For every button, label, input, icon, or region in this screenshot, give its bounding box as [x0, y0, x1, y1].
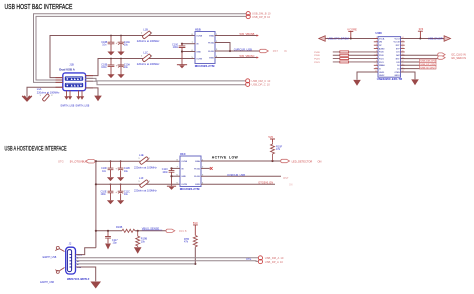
svg-text:2: 2: [149, 181, 151, 183]
connector left pin stubs: [56, 78, 63, 88]
svg-text:220ohm at 100MHz: 220ohm at 100MHz: [37, 90, 60, 94]
svg-text:1: 1: [141, 55, 143, 57]
ground arrow below C103: [107, 74, 114, 78]
capacitor C102 row A polarized: [116, 36, 124, 52]
svg-text:ENA: ENA: [195, 160, 200, 163]
wire J2 DM long: [76, 257, 259, 259]
svg-text:5V0: 5V0: [268, 135, 273, 139]
svg-text:MIC2026-2YM: MIC2026-2YM: [180, 187, 200, 191]
bus entry arrow left: [319, 36, 325, 42]
svg-text:22: 22: [402, 44, 404, 46]
tag I2C_SDA3: [438, 56, 445, 59]
wire U400 left gnd: [357, 72, 378, 80]
wire I2C_CLK3: [401, 54, 438, 56]
svg-text:PU21: PU21: [314, 59, 320, 61]
svg-text:PD21: PD21: [379, 62, 384, 64]
ground earth chassis left: [23, 96, 32, 101]
svg-text:GND: GND: [196, 52, 201, 54]
svg-text:L1B: L1B: [143, 27, 148, 31]
svg-text:20: 20: [402, 51, 404, 53]
svg-text:USB_DM,DP_A: USB_DM,DP_A: [428, 38, 446, 41]
wire ENA to 5V0_VBUSB: [215, 35, 257, 37]
svg-text:2: 2: [149, 158, 151, 160]
svg-text:RBIAS: RBIAS: [379, 64, 385, 67]
svg-text:D1: D1: [397, 69, 399, 71]
wire R7B to ID line: [194, 248, 196, 264]
off-page connector USB_DP_C: [246, 82, 250, 86]
svg-text:1: 1: [141, 32, 143, 34]
SECTION: top block: [5, 3, 287, 107]
connector shield stubs down: [67, 91, 83, 96]
resistor R402: [340, 54, 349, 56]
capacitor C117: [105, 231, 111, 244]
svg-text:IN: IN: [284, 49, 287, 53]
svg-text:5V0_VBUSB: 5V0_VBUSB: [240, 32, 255, 36]
svg-text:100n: 100n: [173, 46, 179, 49]
resistor R401: [340, 51, 349, 53]
svg-text:USB_DP_C 10: USB_DP_C 10: [252, 83, 271, 87]
off-page connector USB_DM_C: [246, 79, 250, 83]
svg-text:OTG: OTG: [58, 159, 64, 163]
ground bar below C100: [177, 64, 186, 66]
junction dot IN (U1C): [170, 167, 172, 169]
svg-text:1: 1: [138, 158, 140, 160]
svg-text:PD20: PD20: [379, 55, 384, 57]
wire row C VBUS: [96, 160, 180, 162]
wire FLGB to RST tag: [215, 50, 261, 52]
SECTION: top right IC: [110, 27, 467, 185]
net label box USB_ID: [420, 66, 437, 69]
ground arrow below C105: [107, 177, 114, 181]
svg-text:10k: 10k: [141, 241, 146, 244]
svg-text:23: 23: [402, 41, 404, 43]
svg-text:GND1: GND1: [379, 72, 384, 74]
tag VBUS_SENSE: [166, 229, 175, 232]
svg-text:21: 21: [402, 47, 404, 49]
wire USB_DP_CPU: [401, 64, 437, 66]
svg-text:VCORE: VCORE: [347, 27, 357, 31]
svg-text:220ohm at 100MHz: 220ohm at 100MHz: [134, 189, 157, 193]
svg-text:EARTH_USB: EARTH_USB: [61, 104, 75, 107]
ground arrow below C109: [117, 200, 124, 204]
svg-text:10u: 10u: [124, 66, 129, 69]
svg-text:FLGA: FLGA: [208, 42, 214, 45]
svg-text:100n: 100n: [101, 193, 107, 196]
svg-text:OTG5V0_EN: OTG5V0_EN: [258, 182, 273, 185]
ground arrow below C108: [107, 200, 114, 204]
svg-text:4: 4: [376, 47, 377, 49]
junction dot FLGA/FLGB: [229, 50, 231, 52]
ground arrow below C104: [117, 74, 124, 78]
ground earth EARTH_USB right pair: [76, 96, 84, 100]
svg-text:L1C: L1C: [143, 50, 148, 54]
net label box USB_DP_CPU: [420, 62, 437, 65]
svg-text:220ohm at 100MHz: 220ohm at 100MHz: [137, 39, 160, 43]
svg-text:J2: J2: [69, 242, 72, 246]
ground triangle below J2: [90, 282, 101, 289]
junction dot R19B: [137, 230, 139, 232]
vertical VBUS wire to connector: [95, 161, 97, 248]
svg-text:VCC3: VCC3: [395, 38, 400, 40]
svg-text:OUTA: OUTA: [181, 160, 187, 163]
svg-text:DM: DM: [379, 42, 382, 44]
svg-text:Dual USB A: Dual USB A: [59, 68, 74, 72]
mounting tab top: [59, 249, 64, 252]
resistor R10F pullup: [271, 142, 275, 161]
junction dot row D left: [95, 183, 97, 185]
svg-text:ON: ON: [289, 185, 293, 187]
wire J2 VBUS pin up: [76, 248, 96, 255]
svg-text:LED_DETECTOR: LED_DETECTOR: [292, 159, 313, 163]
svg-text:10p: 10p: [113, 242, 118, 245]
ground below left of U400: [353, 80, 361, 86]
svg-text:ON: ON: [318, 159, 322, 163]
svg-text:1: 1: [138, 181, 140, 183]
wire USB_DP_C long: [86, 81, 246, 85]
off-page connector USB_DP_B: [246, 15, 250, 19]
U400 left pin stubs: [374, 39, 378, 73]
wire ENB to 5V0_VBUSC: [215, 57, 257, 59]
svg-text:PU20: PU20: [379, 52, 384, 54]
svg-text:EARTH_USB: EARTH_USB: [43, 256, 57, 259]
wire IN pin to cap: [182, 43, 195, 45]
pin numbers U1C: [177, 159, 205, 184]
svg-text:VCCA: VCCA: [379, 37, 385, 40]
wire ENB: [201, 183, 275, 185]
junction dot VBUS row: [95, 230, 97, 232]
ground triangle right of connector: [94, 96, 102, 102]
svg-text:USB_DP_A 10: USB_DP_A 10: [265, 260, 284, 264]
junction dot C117: [107, 230, 109, 232]
arrowhead 5V0_VBUSC: [257, 56, 259, 58]
svg-text:U400: U400: [376, 31, 383, 35]
svg-text:J1B: J1B: [69, 62, 74, 66]
svg-text:OUTB: OUTB: [196, 59, 202, 61]
wire J2 GND to ground: [76, 267, 96, 281]
svg-text:PD20: PD20: [314, 55, 320, 57]
no-connect X FLGA: [210, 167, 213, 170]
svg-text:5V_OTGVBUS: 5V_OTGVBUS: [70, 159, 88, 163]
svg-text:OVRCUR_USB: OVRCUR_USB: [234, 48, 252, 52]
svg-text:10n: 10n: [102, 44, 107, 47]
ferrite bead L1E: [138, 157, 150, 165]
svg-text:FLGA: FLGA: [194, 167, 200, 170]
svg-text:OUTA: OUTA: [196, 35, 202, 38]
wire net USB_DM_B (connector pin3 to top off-page): [34, 14, 247, 83]
junction dot ID: [194, 263, 196, 265]
wire net VBUS row A (connector pin1 up to switch OUTA): [50, 36, 195, 78]
U400 right pin stubs: [401, 39, 405, 73]
svg-text:2: 2: [51, 95, 53, 97]
svg-text:GND3: GND3: [394, 75, 399, 77]
svg-text:2: 2: [151, 32, 153, 34]
svg-text:L1E: L1E: [139, 153, 144, 157]
wire shield right to ground: [86, 88, 98, 96]
svg-text:10n: 10n: [102, 170, 107, 173]
svg-text:10u: 10u: [124, 44, 129, 47]
svg-text:WM17115-480TLF: WM17115-480TLF: [67, 277, 90, 281]
svg-text:2: 2: [376, 41, 377, 43]
svg-text:R10B: R10B: [116, 226, 123, 229]
wire net USB_DP_B (connector pin2 to off-page): [36, 16, 246, 80]
wire GND pin (U1C): [172, 175, 181, 177]
svg-text:AGND: AGND: [379, 47, 385, 50]
wire FLGA stub: [201, 167, 210, 169]
connector right pin stubs: [86, 76, 93, 88]
wire VBUS_SENSE row: [96, 230, 122, 232]
svg-text:9: 9: [376, 64, 377, 66]
wire J2 DP long: [76, 260, 259, 263]
svg-text:EARTH_USB: EARTH_USB: [76, 104, 90, 107]
junction dot GND (U1C): [170, 175, 172, 177]
svg-text:GND2: GND2: [379, 75, 384, 77]
mounting tab bottom: [59, 268, 64, 271]
svg-text:3: 3: [376, 44, 377, 46]
off-page connector USB_DM_A: [258, 256, 262, 260]
svg-text:RST: RST: [273, 49, 279, 53]
svg-text:10u: 10u: [124, 170, 129, 173]
U400 left pin names: [379, 37, 385, 77]
svg-text:+: +: [116, 64, 118, 68]
svg-text:3V3: 3V3: [419, 27, 424, 31]
svg-text:FLGB: FLGB: [208, 51, 214, 53]
svg-text:2: 2: [151, 55, 153, 57]
ground triangle below R19B: [134, 247, 142, 254]
svg-text:1: 1: [376, 37, 377, 39]
wire FLGA jog: [215, 43, 230, 52]
off-page connector USB_DM_B: [246, 12, 250, 16]
svg-text:PU20: PU20: [314, 52, 320, 54]
capacitor C104 row B polarized: [116, 59, 124, 75]
wire row D: [96, 183, 180, 185]
svg-text:USB_DM_C 10: USB_DM_C 10: [252, 79, 271, 83]
resistor R7B: [193, 235, 197, 247]
capacitor C109 row D polarized: [115, 184, 123, 200]
svg-text:OTG: OTG: [246, 258, 251, 261]
wire FLGB: [201, 175, 281, 177]
svg-text:USB_DP_B 10: USB_DP_B 10: [252, 15, 271, 19]
resistor R404: [340, 61, 349, 63]
svg-text:10: 10: [375, 67, 377, 69]
svg-text:100n: 100n: [101, 66, 107, 69]
ferrite bead L1A: [40, 94, 54, 102]
wire IN pin to cap (U1C): [172, 167, 181, 169]
svg-text:D0: D0: [397, 65, 399, 67]
capacitor C105 row C: [108, 161, 114, 177]
junction dots cap rows: [110, 35, 122, 186]
ground arrow below C102: [117, 52, 124, 56]
left pin numbers: [375, 37, 377, 72]
wire U400 right gnd: [401, 72, 416, 79]
ground below right of U400: [411, 79, 419, 85]
svg-text:100n: 100n: [162, 171, 168, 174]
svg-text:+: +: [115, 190, 117, 194]
wire ENA to LED_DETECTOR: [201, 160, 281, 162]
svg-text:220ohm at 100MHz: 220ohm at 100MHz: [137, 62, 160, 66]
ground arrow below C101: [107, 52, 114, 56]
wire U400 to right bus arrow: [401, 38, 446, 40]
wire row B (connector right pin1 up to OUTB): [86, 59, 195, 76]
svg-text:FLGB: FLGB: [194, 176, 200, 178]
svg-text:USB_DM_A 10: USB_DM_A 10: [265, 256, 284, 260]
capacitor C106 row C polarized: [115, 161, 123, 177]
svg-text:U1C: U1C: [180, 152, 186, 156]
ferrite bead L1F: [138, 180, 150, 188]
junction dot IN: [181, 43, 183, 45]
svg-text:ENA: ENA: [209, 35, 214, 38]
ground arrow below C117: [105, 244, 111, 250]
connector J1B Dual USB A: [63, 73, 86, 91]
svg-text:USB HOST B&C INTERFACE: USB HOST B&C INTERFACE: [5, 3, 73, 11]
SECTION: bottom block: [5, 135, 322, 289]
svg-text:5V0: 5V0: [193, 221, 198, 225]
svg-text:ACTIVE LOW: ACTIVE LOW: [212, 156, 239, 160]
ferrite bead L1C: [141, 54, 153, 62]
resistor R403: [340, 58, 349, 60]
svg-text:CPEN: CPEN: [394, 72, 400, 74]
svg-text:220ohm at 100MHz: 220ohm at 100MHz: [134, 166, 157, 170]
svg-text:+: +: [116, 41, 118, 45]
svg-text:PU21: PU21: [379, 58, 384, 60]
wire USB_ID: [401, 68, 437, 70]
tag RST: [259, 49, 268, 52]
svg-text:47k: 47k: [276, 148, 281, 151]
IC U400 body: [378, 37, 401, 78]
U400 right pin names: [393, 38, 400, 77]
right pin numbers: [402, 37, 404, 72]
svg-text:USB3320C-EZK-TR: USB3320C-EZK-TR: [377, 77, 402, 81]
connector J2 mini USB: [66, 247, 76, 274]
svg-text:L1F: L1F: [139, 176, 144, 180]
capacitor C110 on IN (U1C): [169, 168, 175, 185]
arrowhead 5V0_VBUSB: [257, 34, 259, 36]
op IC U1B MIC2026 power switch: [195, 32, 215, 64]
junction dot pullup: [271, 160, 273, 162]
svg-text:MIC2026-2YM: MIC2026-2YM: [195, 64, 215, 68]
ground bar below C110: [167, 185, 176, 187]
wire GND pin: [182, 51, 195, 53]
svg-text:I2C_SDA3 IN: I2C_SDA3 IN: [451, 57, 466, 60]
resistor R10B inline: [122, 229, 135, 232]
net label box USB_DM_CPU: [420, 59, 437, 62]
svg-text:USB_ID_CPU: USB_ID_CPU: [421, 67, 435, 69]
svg-text:OVRCUR_USB: OVRCUR_USB: [227, 173, 245, 177]
tag I2C_CLK3: [438, 53, 445, 56]
svg-text:VCC18: VCC18: [393, 42, 399, 44]
svg-text:5V0_VBUSC: 5V0_VBUSC: [240, 54, 255, 58]
junction dot row C left: [95, 160, 97, 162]
wires resistors to U400: [333, 52, 378, 62]
svg-text:U1B: U1B: [195, 28, 201, 32]
capacitor C100 on IN: [179, 44, 185, 65]
svg-text:47k: 47k: [184, 241, 189, 244]
IC U1C MIC2026: [180, 156, 201, 187]
svg-text:PD21: PD21: [314, 62, 320, 64]
capacitor C103 row B: [108, 59, 114, 75]
wire I2C_SDA3: [401, 58, 438, 60]
ground arrow below C106: [117, 177, 124, 181]
ground earth EARTH_USB left pair: [64, 96, 72, 100]
capacitor C101 row A: [108, 36, 114, 52]
wire EARTH to connector: [27, 87, 63, 96]
wire after R10B: [135, 230, 166, 232]
svg-text:10u: 10u: [124, 193, 129, 196]
svg-text:1: 1: [40, 95, 42, 97]
ferrite bead L1B: [141, 31, 153, 39]
tag 5V_OTGVBUS: [86, 159, 95, 163]
svg-text:RST: RST: [283, 176, 289, 180]
svg-text:GND: GND: [181, 176, 186, 178]
wire J2 ID long: [76, 263, 196, 265]
junction dot GND: [181, 50, 183, 52]
off-page connector USB_DP_A: [258, 260, 262, 264]
svg-text:+: +: [115, 167, 117, 171]
svg-text:USB_OTG_DP,DM: USB_OTG_DP,DM: [328, 38, 349, 41]
wire USB_DM_C long: [86, 78, 246, 81]
svg-text:EARTH_USB: EARTH_USB: [40, 281, 54, 284]
svg-text:USB A HOST/DEVICE INTERFACE: USB A HOST/DEVICE INTERFACE: [5, 145, 67, 152]
bus exit arrow right: [444, 36, 450, 42]
pin name texts J2: [77, 255, 83, 269]
resistor R19B: [136, 231, 140, 247]
wire bus to U400: [325, 38, 378, 40]
wire USB_DM_CPU: [401, 61, 437, 63]
svg-text:R19 B: R19 B: [179, 229, 187, 233]
capacitor C108 row D: [108, 184, 114, 200]
svg-text:ENB: ENB: [209, 58, 214, 60]
svg-text:VBUS_SENSE: VBUS_SENSE: [142, 226, 160, 230]
tag LED_DETECTOR: [281, 159, 290, 162]
